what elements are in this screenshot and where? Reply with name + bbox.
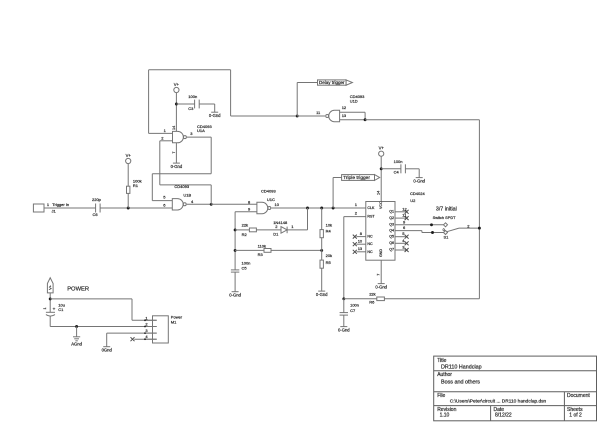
svg-text:10: 10 [358, 239, 363, 244]
svg-text:22k: 22k [369, 291, 375, 296]
svg-text:0: 0 [443, 228, 445, 232]
svg-text:C6: C6 [93, 212, 99, 217]
svg-text:V+: V+ [379, 146, 385, 151]
svg-text:1.10: 1.10 [440, 412, 450, 418]
svg-text:DR110 Handclap: DR110 Handclap [441, 365, 482, 371]
svg-text:7: 7 [377, 274, 381, 276]
svg-text:CD4093: CD4093 [261, 188, 276, 193]
svg-text:0-Gnd: 0-Gnd [375, 284, 387, 289]
svg-text:Boss and others: Boss and others [441, 380, 480, 386]
svg-text:U1B: U1B [183, 193, 191, 198]
svg-text:0-Gnd: 0-Gnd [316, 292, 328, 297]
svg-text:220p: 220p [92, 197, 102, 202]
svg-text:NC: NC [367, 235, 373, 239]
svg-text:3/7 initial: 3/7 initial [436, 207, 457, 213]
svg-text:R3: R3 [258, 252, 264, 257]
svg-text:7: 7 [172, 151, 176, 153]
svg-text:0Gnd: 0Gnd [102, 348, 113, 353]
svg-text:C3: C3 [188, 106, 194, 111]
svg-text:RST: RST [367, 215, 375, 219]
svg-text:R1: R1 [133, 183, 139, 188]
svg-text:1 of 2: 1 of 2 [569, 412, 582, 418]
svg-text:CD4093: CD4093 [174, 184, 189, 189]
svg-text:Triple trigger: Triple trigger [343, 175, 370, 181]
svg-text:14: 14 [172, 126, 176, 130]
svg-text:CD4024: CD4024 [410, 191, 425, 196]
svg-text:8/12/22: 8/12/22 [495, 412, 512, 418]
svg-text:C4: C4 [394, 169, 400, 174]
svg-text:1: 1 [43, 307, 47, 309]
svg-text:C:\Users\Peter\circuit ... DR1: C:\Users\Peter\circuit ... DR110 handcla… [450, 399, 547, 405]
svg-text:AGnd: AGnd [71, 342, 82, 347]
svg-text:U1D: U1D [350, 99, 358, 104]
svg-text:R4: R4 [326, 228, 332, 233]
svg-text:Document: Document [567, 393, 590, 399]
svg-text:Q2: Q2 [389, 216, 394, 220]
svg-text:VCC: VCC [379, 201, 383, 209]
svg-text:+: + [53, 306, 56, 311]
svg-text:Switch SPDT: Switch SPDT [433, 215, 457, 220]
svg-text:100n: 100n [188, 94, 197, 99]
svg-text:Trigger In: Trigger In [52, 202, 69, 207]
svg-text:File: File [437, 393, 445, 399]
svg-text:V+: V+ [126, 153, 132, 158]
svg-text:100n: 100n [394, 159, 403, 164]
svg-text:C5: C5 [242, 266, 248, 271]
svg-text:Title: Title [437, 358, 446, 364]
svg-text:13: 13 [342, 113, 347, 118]
svg-text:20k: 20k [326, 253, 332, 258]
svg-text:R2: R2 [242, 232, 248, 237]
svg-text:V+: V+ [48, 284, 52, 290]
svg-text:R5: R5 [326, 260, 332, 265]
svg-text:M1: M1 [171, 320, 177, 325]
svg-text:U2: U2 [410, 198, 416, 203]
svg-text:10: 10 [275, 202, 280, 207]
svg-text:NC: NC [367, 242, 373, 246]
svg-text:D1: D1 [273, 232, 279, 237]
svg-text:C7: C7 [350, 308, 356, 313]
svg-text:NC: NC [367, 250, 373, 254]
svg-text:GND: GND [379, 249, 383, 257]
svg-text:0-Gnd: 0-Gnd [229, 293, 241, 298]
svg-text:Q3: Q3 [389, 223, 394, 227]
svg-text:V+: V+ [174, 82, 180, 87]
svg-text:R6: R6 [369, 300, 375, 305]
svg-text:Q4: Q4 [389, 228, 394, 232]
svg-text:Q6: Q6 [389, 241, 394, 245]
svg-text:0-Gnd: 0-Gnd [209, 113, 221, 118]
svg-text:Delay trigger: Delay trigger [319, 80, 345, 85]
svg-text:22k: 22k [242, 223, 248, 228]
svg-text:C1: C1 [58, 307, 64, 312]
svg-text:Author: Author [437, 372, 452, 378]
svg-text:U1A: U1A [197, 128, 205, 133]
svg-text:14: 14 [377, 191, 381, 195]
svg-text:S1: S1 [444, 234, 450, 239]
svg-text:Q1: Q1 [389, 210, 394, 214]
svg-text:POWER: POWER [67, 287, 89, 293]
svg-text:Q5: Q5 [389, 234, 394, 238]
svg-text:U1C: U1C [267, 197, 275, 202]
svg-text:10k: 10k [326, 222, 332, 227]
svg-text:13: 13 [358, 246, 363, 251]
svg-text:CLK: CLK [367, 206, 375, 210]
svg-text:0-Gnd: 0-Gnd [171, 164, 183, 169]
svg-text:0-Gnd: 0-Gnd [338, 327, 350, 332]
svg-text:Q7: Q7 [389, 248, 394, 252]
svg-text:12: 12 [342, 105, 347, 110]
svg-text:0-Gnd: 0-Gnd [413, 178, 425, 183]
svg-text:110k: 110k [258, 244, 266, 249]
svg-text:12: 12 [402, 206, 407, 211]
